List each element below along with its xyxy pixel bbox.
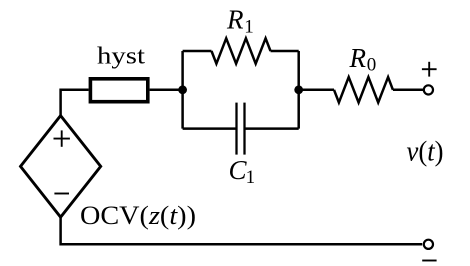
resistor R0 (zigzag) (334, 77, 393, 102)
svg-text:R: R (226, 5, 244, 35)
wire: R0 to top terminal (393, 89, 423, 92)
hyst block (90, 79, 147, 102)
svg-text:hyst: hyst (97, 44, 145, 70)
svg-text:1: 1 (246, 167, 256, 188)
wire: source top to hyst row (61, 90, 89, 117)
wire: top branch lead-in (183, 50, 212, 53)
wire: source bottom to bottom rail (61, 216, 423, 244)
wire: hyst to node A (150, 89, 183, 92)
minus sign inside source (54, 193, 69, 195)
svg-text:v(t): v(t) (407, 137, 444, 168)
svg-text:1: 1 (244, 16, 254, 37)
node A (left junction dot) (178, 85, 187, 94)
plus sign at top terminal (422, 62, 437, 77)
top terminal (open circle) (424, 85, 433, 94)
svg-text:R: R (349, 43, 367, 73)
svg-text:0: 0 (367, 55, 377, 76)
dependent source E1 (diamond) (21, 116, 101, 218)
plus sign inside source (54, 130, 70, 146)
wire: right vertical branch (297, 51, 300, 129)
capacitor C1 (plates) (237, 103, 245, 155)
svg-text:OCV(z(t)): OCV(z(t)) (80, 201, 196, 230)
minus sign at bottom terminal (422, 260, 436, 262)
node B (right junction dot) (294, 85, 303, 94)
wire: left vertical branch (181, 51, 184, 129)
wire: bottom branch lead-in (183, 127, 237, 130)
wire: node B to R0 (299, 89, 334, 92)
bottom terminal (open circle) (424, 240, 433, 249)
resistor R1 (zigzag) (212, 38, 271, 63)
wire: top branch lead-out (271, 50, 299, 53)
wire: bottom branch lead-out (245, 127, 299, 130)
